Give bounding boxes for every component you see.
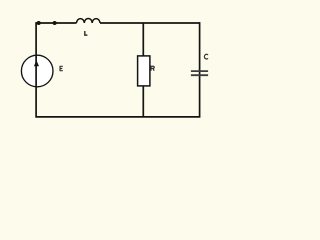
wire resistor branch (142, 23, 144, 117)
resistor R body (138, 56, 150, 86)
wire left vertical / bottom / right vertical (outer loop) (36, 23, 200, 117)
wire top-right segment (inductor to top-right corner) (100, 22, 200, 24)
label R (151, 66, 154, 71)
source arrow (points up) (34, 60, 39, 66)
junction dot 2 (53, 21, 57, 25)
capacitor C top plate (191, 70, 208, 72)
capacitor C bottom plate (191, 74, 208, 76)
inductor L (3 humps) (77, 18, 101, 23)
junction dot 1 (37, 21, 41, 25)
label E (60, 66, 63, 71)
source E circle (21, 55, 53, 87)
wire through source (35, 55, 37, 87)
wire top-left segment (corner to inductor) (36, 22, 76, 24)
label C (204, 54, 208, 59)
label L (85, 31, 88, 35)
